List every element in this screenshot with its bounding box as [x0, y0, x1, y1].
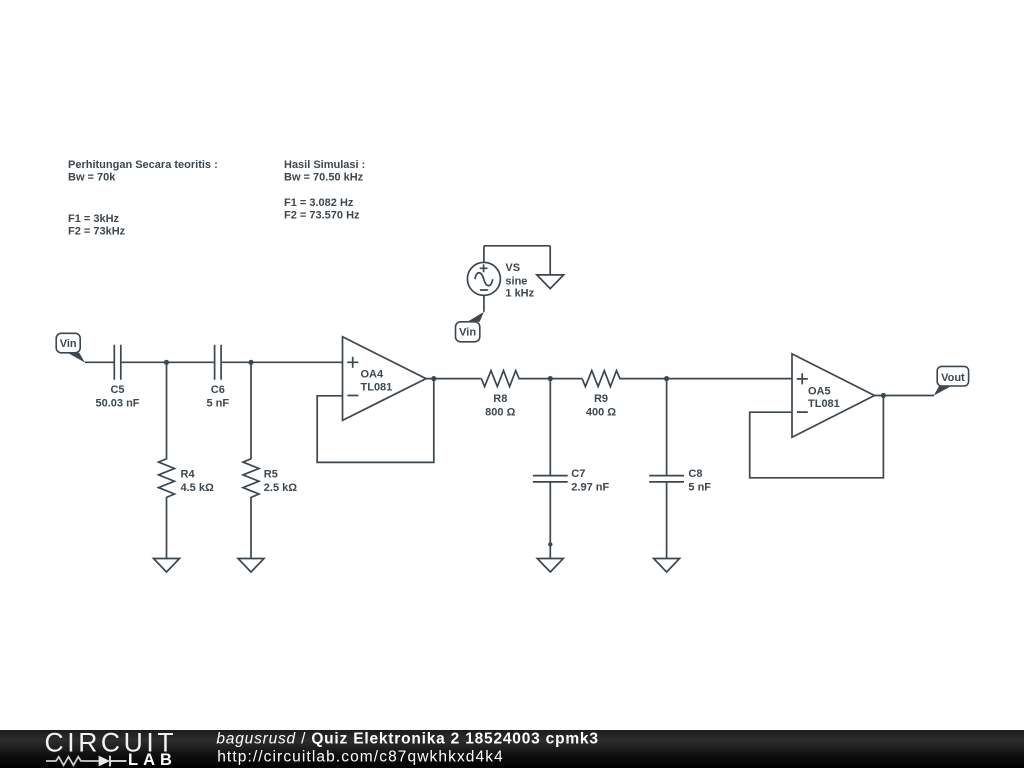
svg-text:C8: C8	[688, 468, 702, 480]
svg-text:F1 = 3.082 Hz: F1 = 3.082 Hz	[284, 197, 354, 209]
svg-text:sine: sine	[505, 275, 527, 287]
svg-text:F2 = 73kHz: F2 = 73kHz	[68, 226, 126, 238]
svg-text:Hasil Simulasi :: Hasil Simulasi :	[284, 159, 365, 171]
svg-text:Vout: Vout	[941, 372, 965, 384]
svg-text:5 nF: 5 nF	[206, 398, 229, 410]
svg-text:Vin: Vin	[60, 338, 77, 350]
svg-text:http://circuitlab.com/c87qwkhk: http://circuitlab.com/c87qwkhkxd4k4	[217, 749, 504, 766]
svg-text:TL081: TL081	[808, 398, 840, 410]
svg-text:bagusrusd / Quiz Elektronika 2: bagusrusd / Quiz Elektronika 2 18524003 …	[216, 731, 598, 748]
svg-text:R9: R9	[594, 393, 608, 405]
svg-text:Bw = 70.50 kHz: Bw = 70.50 kHz	[284, 172, 364, 184]
svg-text:C7: C7	[571, 468, 585, 480]
svg-text:C5: C5	[110, 384, 124, 396]
svg-text:2.5 kΩ: 2.5 kΩ	[264, 482, 297, 494]
svg-text:5 nF: 5 nF	[688, 481, 711, 493]
svg-text:4.5 kΩ: 4.5 kΩ	[181, 482, 214, 494]
svg-text:Bw = 70k: Bw = 70k	[68, 172, 116, 184]
svg-text:1 kHz: 1 kHz	[505, 287, 534, 299]
svg-text:2.97 nF: 2.97 nF	[571, 481, 609, 493]
svg-text:R5: R5	[264, 468, 278, 480]
svg-text:TL081: TL081	[361, 381, 393, 393]
svg-text:OA5: OA5	[808, 385, 831, 397]
svg-text:F1 = 3kHz: F1 = 3kHz	[68, 213, 120, 225]
svg-text:OA4: OA4	[361, 369, 385, 381]
svg-text:400 Ω: 400 Ω	[586, 406, 616, 418]
svg-text:50.03 nF: 50.03 nF	[95, 398, 139, 410]
svg-text:VS: VS	[505, 262, 520, 274]
svg-text:F2 = 73.570 Hz: F2 = 73.570 Hz	[284, 210, 360, 222]
svg-text:Perhitungan Secara teoritis :: Perhitungan Secara teoritis :	[68, 159, 218, 171]
svg-text:800 Ω: 800 Ω	[485, 406, 515, 418]
svg-text:C6: C6	[211, 384, 225, 396]
svg-text:LAB: LAB	[128, 751, 177, 768]
svg-text:Vin: Vin	[459, 327, 476, 339]
svg-text:R8: R8	[493, 393, 507, 405]
svg-text:R4: R4	[181, 468, 196, 480]
